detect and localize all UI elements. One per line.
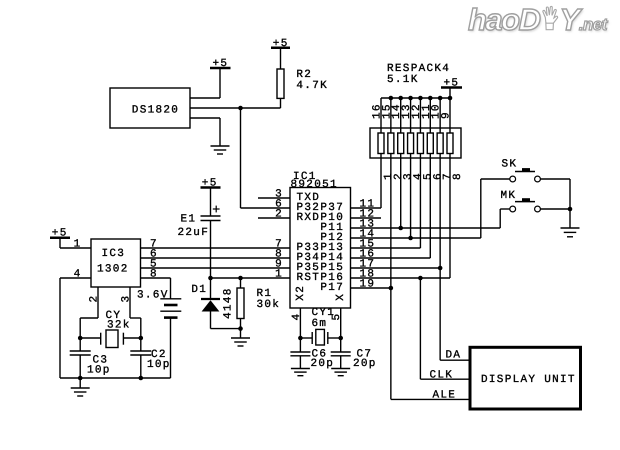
- svg-text:9: 9: [440, 111, 452, 119]
- svg-text:20p: 20p: [353, 358, 377, 370]
- svg-text:3.6V: 3.6V: [137, 289, 169, 301]
- svg-text:2: 2: [275, 209, 283, 221]
- svg-text:22uF: 22uF: [178, 227, 210, 239]
- svg-text:4.7K: 4.7K: [296, 80, 328, 92]
- svg-text:D1: D1: [191, 284, 207, 296]
- svg-text:4148: 4148: [223, 287, 235, 319]
- svg-text:10p: 10p: [147, 359, 171, 371]
- svg-text:20p: 20p: [311, 358, 335, 370]
- svg-text:RST: RST: [297, 272, 321, 284]
- svg-text:10p: 10p: [87, 365, 111, 377]
- svg-text:1302: 1302: [97, 263, 129, 275]
- svg-text:30k: 30k: [257, 299, 281, 311]
- svg-text:5.1K: 5.1K: [387, 74, 419, 86]
- svg-text:DS1820: DS1820: [132, 105, 179, 117]
- svg-text:P17: P17: [320, 282, 344, 294]
- svg-text:E1: E1: [181, 213, 197, 225]
- svg-text:6m: 6m: [312, 318, 328, 330]
- svg-text:8: 8: [452, 172, 464, 180]
- svg-text:892051: 892051: [291, 179, 338, 191]
- svg-text:4: 4: [74, 269, 82, 281]
- svg-text:MK: MK: [501, 190, 517, 202]
- svg-text:DISPLAY UNIT: DISPLAY UNIT: [481, 374, 576, 386]
- svg-text:1: 1: [74, 239, 82, 251]
- svg-text:IC3: IC3: [102, 248, 126, 260]
- svg-text:RXD: RXD: [297, 212, 321, 224]
- svg-text:19: 19: [360, 279, 376, 291]
- svg-text:X2: X2: [295, 285, 307, 301]
- svg-text:1: 1: [275, 269, 283, 281]
- svg-text:4: 4: [291, 313, 303, 321]
- svg-text:2: 2: [89, 295, 101, 303]
- svg-text:3: 3: [121, 295, 133, 303]
- svg-text:SK: SK: [502, 159, 518, 171]
- svg-text:X: X: [335, 293, 347, 301]
- svg-text:8: 8: [150, 269, 158, 281]
